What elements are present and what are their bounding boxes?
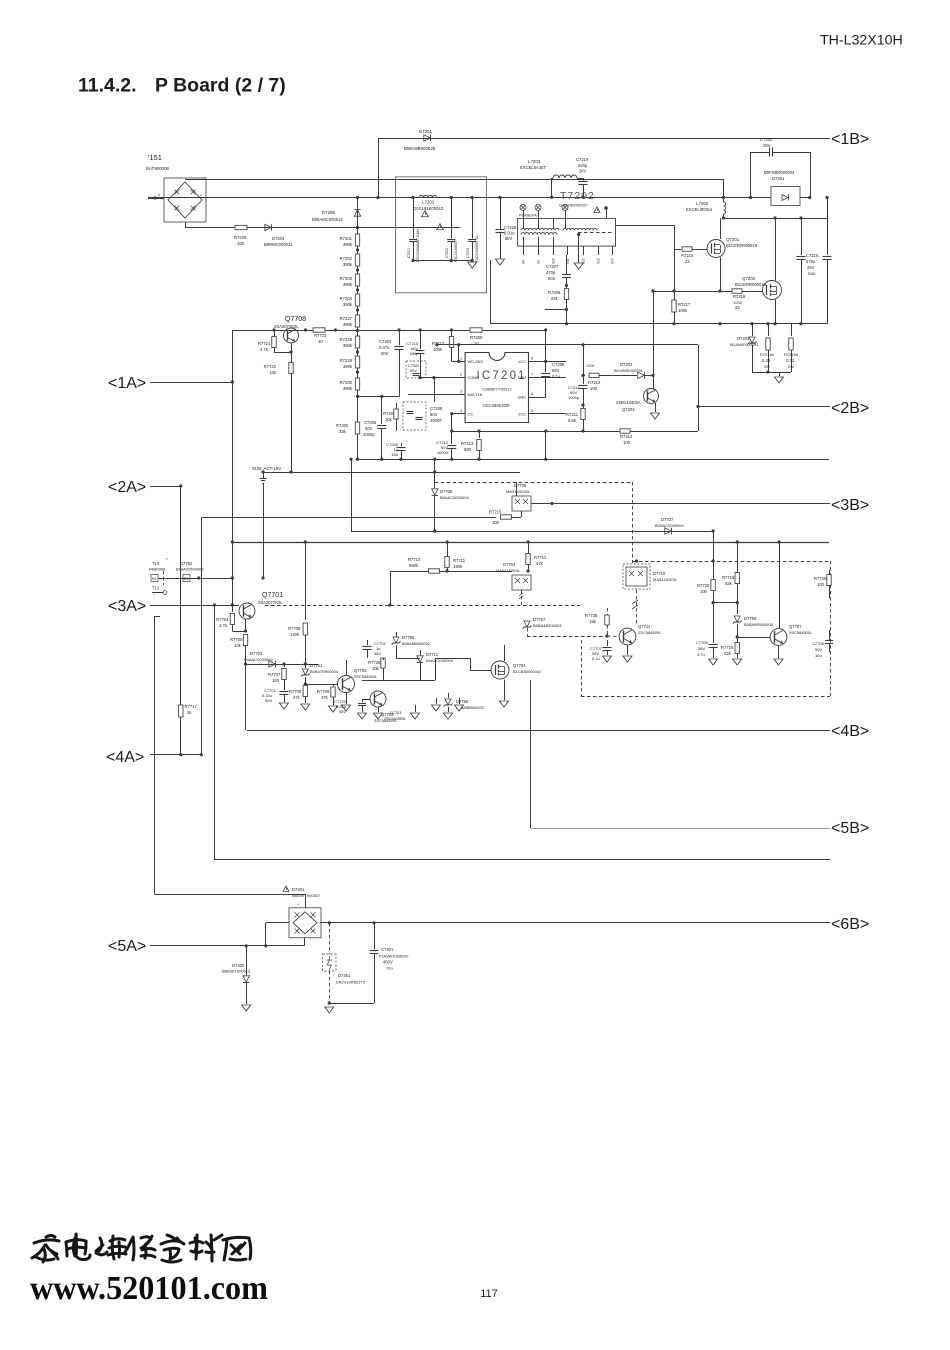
svg-text:COMP: COMP — [468, 376, 480, 380]
svg-text:47k: 47k — [293, 695, 301, 700]
svg-text:2W: 2W — [788, 365, 794, 369]
svg-text:R3: R3 — [152, 577, 156, 581]
svg-text:11.4.2.: 11.4.2. — [78, 75, 137, 97]
zener D7755 — [392, 632, 431, 658]
svg-text:WD-SNS: WD-SNS — [468, 360, 484, 364]
capacitor C7212 — [436, 429, 456, 459]
svg-text:10k: 10k — [234, 643, 242, 648]
resistor R7723 — [313, 328, 337, 344]
node 3A — [108, 598, 239, 615]
ground — [280, 703, 289, 709]
junction — [328, 921, 376, 924]
svg-text:R7711: R7711 — [453, 558, 466, 563]
svg-text:56V: 56V — [374, 651, 381, 656]
svg-text:56V: 56V — [552, 368, 560, 373]
wire — [800, 197, 810, 199]
svg-text:D7710: D7710 — [653, 571, 666, 576]
ground — [775, 372, 784, 383]
capacitor C7520 — [406, 361, 426, 378]
svg-text:D7705: D7705 — [440, 489, 453, 494]
capacitor C7207 — [546, 255, 571, 288]
svg-text:0.33: 0.33 — [762, 358, 771, 363]
svg-text:C7520: C7520 — [408, 364, 419, 368]
svg-text:4: 4 — [158, 193, 160, 197]
svg-text:100: 100 — [817, 582, 825, 587]
resistor R7720 — [697, 580, 715, 595]
svg-text:680: 680 — [464, 447, 472, 452]
svg-text:B0B47R900004: B0B47R900004 — [310, 669, 339, 674]
mosfet Q7201 — [707, 218, 758, 258]
svg-text:390k: 390k — [343, 282, 353, 287]
wire — [752, 370, 791, 373]
bridge rectifier D7401 — [264, 886, 321, 948]
wire — [185, 222, 460, 228]
svg-text:MA3X15200L: MA3X15200L — [506, 489, 531, 494]
resistor R7212 — [583, 364, 637, 391]
svg-text:D7704: D7704 — [503, 562, 516, 567]
svg-text:D7201: D7201 — [419, 129, 432, 134]
zener D7757 — [523, 617, 608, 637]
svg-text:+: + — [297, 903, 299, 907]
svg-text:100: 100 — [590, 386, 598, 391]
svg-text:R7717: R7717 — [185, 704, 198, 709]
node 4B — [247, 723, 870, 740]
svg-text:R7736: R7736 — [585, 613, 598, 618]
svg-text:R7704: R7704 — [216, 617, 229, 622]
svg-text:MA34152E0L: MA34152E0L — [653, 577, 678, 582]
svg-text:390k: 390k — [343, 386, 353, 391]
svg-text:R7202: R7202 — [340, 256, 353, 261]
pin 4 — [450, 409, 473, 417]
svg-text:GND: GND — [518, 396, 527, 400]
wire — [451, 414, 453, 431]
resistor R7704 — [216, 605, 247, 633]
svg-text:56V: 56V — [339, 709, 346, 714]
capacitor C7701 — [262, 688, 289, 703]
wire — [712, 531, 715, 604]
svg-text:5.6k: 5.6k — [568, 418, 577, 423]
svg-text:50V: 50V — [410, 369, 417, 373]
svg-text:D7752: D7752 — [180, 561, 193, 566]
resistor R7268 — [470, 328, 483, 346]
svg-text:R7227: R7227 — [340, 316, 353, 321]
svg-text:C7229: C7229 — [504, 225, 517, 230]
svg-text:UCC28051DR: UCC28051DR — [483, 403, 510, 408]
resistor R7717 — [179, 704, 198, 717]
svg-text:2W: 2W — [764, 365, 770, 369]
pin 6 — [518, 392, 546, 400]
svg-text:<1A>: <1A> — [108, 375, 146, 392]
section heading — [78, 75, 286, 97]
svg-text:<2A>: <2A> — [108, 479, 146, 496]
svg-text:D7251: D7251 — [772, 176, 785, 181]
svg-text:2SC584500L: 2SC584500L — [789, 630, 813, 635]
resistor R7736 — [585, 608, 609, 638]
photocoupler D7709 — [506, 482, 554, 511]
node SUB_ACT-18V — [252, 466, 281, 484]
svg-text:100: 100 — [237, 241, 245, 246]
svg-text:<2B>: <2B> — [831, 400, 869, 417]
resistor R7218 — [760, 322, 775, 372]
svg-text:390k: 390k — [343, 302, 353, 307]
svg-text:50V: 50V — [265, 698, 272, 703]
wire — [155, 894, 306, 908]
svg-text:ZCD: ZCD — [518, 412, 526, 416]
ground — [411, 705, 420, 719]
diode D7201 — [379, 129, 436, 198]
svg-text:R7210: R7210 — [432, 341, 445, 346]
svg-text:390k: 390k — [343, 322, 353, 327]
svg-text:R7721: R7721 — [258, 341, 271, 346]
svg-text:R7722: R7722 — [264, 364, 277, 369]
svg-text:R7706: R7706 — [288, 626, 301, 631]
wire — [435, 343, 698, 346]
capacitor C7702 — [363, 640, 387, 658]
svg-text:R7217: R7217 — [678, 302, 691, 307]
capacitor C7208 — [403, 402, 443, 430]
svg-text:100: 100 — [272, 678, 280, 683]
zener D7751 — [301, 663, 339, 686]
svg-text:10u: 10u — [815, 653, 822, 658]
resistor R7707 — [268, 662, 286, 690]
diode D7204 — [264, 224, 293, 247]
pin 8 — [518, 357, 566, 365]
svg-text:C7206: C7206 — [364, 420, 377, 425]
svg-text:C7706: C7706 — [812, 641, 825, 646]
resistor R7709 — [317, 684, 338, 712]
svg-text:1000#: 1000# — [430, 418, 442, 423]
wire — [773, 218, 776, 325]
svg-text:3: 3 — [460, 390, 462, 394]
svg-text:5: 5 — [531, 409, 533, 413]
svg-text:10u: 10u — [386, 966, 393, 971]
svg-text:<6B>: <6B> — [831, 916, 869, 933]
resistor R7227 — [340, 306, 360, 327]
svg-text:8: 8 — [531, 357, 533, 361]
node 5A — [108, 938, 305, 955]
svg-text:CS: CS — [468, 412, 474, 416]
svg-text:R7710: R7710 — [408, 557, 421, 562]
capacitor C7209 — [386, 442, 405, 459]
transformer T7202 — [518, 190, 616, 246]
svg-text:B0AAC0000084: B0AAC0000084 — [244, 657, 273, 662]
svg-text:F0C2165M097 1u: F0C2165M097 1u — [475, 235, 479, 262]
capacitor C7219 — [576, 157, 589, 199]
op-amp IC7201 box — [465, 353, 528, 423]
svg-text:560k: 560k — [409, 563, 419, 568]
svg-text:S9: S9 — [537, 260, 541, 264]
svg-text:2SC584500L: 2SC584500L — [354, 674, 378, 679]
svg-text:100: 100 — [623, 440, 631, 445]
svg-text:C7215: C7215 — [806, 253, 819, 258]
svg-text:B0BA4B500003: B0BA4B500003 — [533, 623, 562, 628]
svg-text:4.7u: 4.7u — [697, 652, 705, 657]
wire to 2B — [696, 345, 699, 431]
svg-text:50V: 50V — [548, 276, 556, 281]
resistor R7219 — [784, 324, 799, 372]
svg-text:C7219: C7219 — [576, 157, 589, 162]
wire — [263, 470, 520, 473]
svg-text:D7759: D7759 — [744, 616, 757, 621]
wire box left — [155, 616, 161, 894]
svg-text:0.47u: 0.47u — [379, 345, 390, 350]
transistor Q7711 — [607, 624, 662, 662]
svg-text:P Board (2 / 7): P Board (2 / 7) — [155, 75, 286, 97]
svg-text:Q7711: Q7711 — [638, 624, 651, 629]
resistor R7214 — [620, 429, 633, 445]
svg-text:F0C2218M097: F0C2218M097 — [454, 240, 458, 262]
resistor R7228 — [340, 327, 360, 348]
wire — [199, 576, 265, 579]
transistor Q7203 — [616, 375, 660, 419]
svg-text:22k: 22k — [724, 651, 732, 656]
filter box — [396, 177, 487, 293]
svg-text:Q7203: Q7203 — [622, 407, 635, 412]
resistor R7215 — [674, 247, 708, 264]
svg-text:DRV: DRV — [518, 376, 526, 380]
svg-text:R7213: R7213 — [461, 441, 474, 446]
wire bus — [148, 197, 771, 199]
svg-text:C7207: C7207 — [546, 264, 559, 269]
pin 4 — [535, 205, 541, 219]
resistor R7206 — [545, 289, 569, 326]
svg-text:C0B8BYY90012: C0B8BYY90012 — [482, 387, 512, 392]
svg-text:R7705: R7705 — [230, 637, 243, 642]
capacitor C7707 — [590, 640, 612, 662]
pin 7 — [518, 373, 566, 381]
transistor Q7708 — [272, 316, 307, 343]
resistor R7715 — [201, 510, 521, 526]
svg-text:<5A>: <5A> — [108, 938, 146, 955]
svg-text:C7230: C7230 — [760, 137, 773, 142]
capacitor C7201 — [407, 196, 443, 262]
svg-text:2kV: 2kV — [579, 169, 586, 174]
zener D7759 — [733, 603, 774, 639]
svg-text:*: * — [166, 557, 168, 562]
resistor R7235 — [234, 225, 247, 246]
pin 2 — [520, 205, 526, 219]
dashed link — [435, 482, 633, 563]
svg-text:R7206: R7206 — [548, 290, 561, 295]
resistor R7201 — [340, 228, 360, 248]
svg-text:R3: R3 — [184, 577, 188, 581]
svg-text:117: 117 — [480, 1288, 498, 1300]
svg-text:100k: 100k — [433, 347, 443, 352]
svg-text:R7235: R7235 — [234, 235, 247, 240]
wire gate line — [651, 289, 762, 292]
resistor R7210 — [432, 328, 454, 361]
svg-text:G0C181K00043: G0C181K00043 — [413, 206, 444, 211]
svg-text:<3A>: <3A> — [108, 598, 146, 615]
svg-text:R7201: R7201 — [340, 236, 353, 241]
pin 6 — [562, 205, 568, 219]
capacitor C7204 — [379, 328, 404, 396]
svg-text:D7401: D7401 — [292, 887, 305, 892]
node 3B — [534, 497, 869, 514]
svg-text:S8: S8 — [522, 260, 526, 264]
junction — [376, 196, 811, 199]
svg-text:EXCEL5A35T: EXCEL5A35T — [520, 165, 547, 170]
svg-text:R7230: R7230 — [340, 380, 353, 385]
resistor R7711 — [445, 557, 466, 570]
svg-text:<3B>: <3B> — [831, 497, 869, 514]
svg-text:Q7707: Q7707 — [789, 624, 802, 629]
wire — [356, 390, 399, 398]
svg-text:10k: 10k — [269, 370, 277, 375]
svg-text:R7268: R7268 — [470, 335, 483, 340]
svg-text:Q7201: Q7201 — [726, 237, 740, 242]
resistor R7706 — [288, 542, 308, 664]
wire — [388, 571, 391, 607]
svg-text:Q7708: Q7708 — [285, 316, 306, 323]
svg-text:L7201: L7201 — [422, 200, 435, 205]
svg-text:2SC584500L: 2SC584500L — [638, 630, 662, 635]
capacitor C7706 — [812, 630, 833, 658]
svg-text:D7205: D7205 — [322, 210, 335, 215]
resistor R7203 — [340, 266, 360, 287]
capacitor C7229 — [496, 196, 518, 265]
wire collector — [245, 664, 247, 730]
page header model number — [820, 33, 903, 49]
svg-text:B1CERR000018: B1CERR000018 — [726, 243, 758, 248]
pin 3 — [408, 390, 483, 398]
svg-text:T7202: T7202 — [560, 190, 595, 202]
node 2A — [108, 479, 181, 496]
svg-text:R7204: R7204 — [340, 296, 353, 301]
svg-text:50V: 50V — [381, 351, 389, 356]
svg-text:R7203: R7203 — [340, 276, 353, 281]
svg-text:D7204: D7204 — [272, 236, 285, 241]
svg-text:19k: 19k — [589, 619, 597, 624]
svg-text:C7295: C7295 — [552, 362, 565, 367]
resistor R7211 — [566, 403, 585, 431]
svg-text:190k: 190k — [453, 564, 463, 569]
resistor R7213 — [461, 429, 481, 459]
optic arrow — [632, 590, 638, 625]
svg-text:B6E8KT000013: B6E8KT000013 — [222, 969, 251, 974]
svg-text:D7756: D7756 — [456, 699, 469, 704]
transformer pins bottom — [522, 246, 615, 264]
svg-text:Q7701: Q7701 — [262, 592, 283, 599]
svg-text:R7211: R7211 — [566, 412, 579, 417]
bridge rectifier '151 — [146, 153, 206, 222]
svg-text:D7751: D7751 — [310, 663, 323, 668]
svg-text:T13: T13 — [152, 586, 160, 591]
transistor Q7707 — [737, 542, 813, 665]
resistor R7204 — [340, 286, 360, 307]
mosfet Q7704 — [470, 645, 542, 707]
svg-text:50V: 50V — [815, 647, 822, 652]
resistor R7710 — [390, 557, 512, 573]
svg-text:'151: '151 — [148, 153, 162, 162]
svg-text:1000p: 1000p — [568, 395, 580, 400]
ground — [301, 704, 310, 710]
svg-text:<1B>: <1B> — [831, 131, 869, 148]
transistor Q7701 — [213, 592, 283, 619]
svg-text:1000#: 1000# — [437, 450, 449, 455]
wire bus x232 — [231, 330, 234, 607]
svg-text:R7214: R7214 — [620, 434, 633, 439]
svg-text:390k: 390k — [343, 242, 353, 247]
svg-text:ER2V10R621T2: ER2V10R621T2 — [336, 980, 366, 985]
svg-text:B0AAC0000004: B0AAC0000004 — [440, 495, 469, 500]
svg-text:L7202: L7202 — [696, 201, 709, 206]
svg-text:R7719: R7719 — [721, 645, 734, 650]
svg-text:B0AAC0000004: B0AAC0000004 — [655, 523, 684, 528]
svg-text:<4A>: <4A> — [106, 749, 144, 766]
svg-text:TH-L32X10H: TH-L32X10H — [820, 33, 903, 49]
zener D7756 — [444, 693, 485, 719]
wire — [362, 658, 436, 681]
svg-text:B08AMC000012: B08AMC000012 — [312, 217, 343, 222]
svg-text:0.1u: 0.1u — [552, 374, 561, 379]
svg-text:R680008: R680008 — [149, 567, 166, 572]
resistor R7719 — [721, 637, 742, 665]
resistor R7708 — [289, 686, 308, 704]
resistor R7202 — [340, 246, 360, 267]
ac terminal dot — [148, 193, 202, 200]
svg-text:5kV: 5kV — [505, 236, 512, 241]
capacitor C7401 — [329, 923, 409, 1004]
svg-text:C7705: C7705 — [696, 640, 709, 645]
page number — [480, 1288, 498, 1300]
svg-text:22: 22 — [735, 305, 740, 310]
transistor Q7793 label — [384, 711, 406, 721]
wire — [179, 484, 182, 756]
svg-text:10: 10 — [474, 341, 479, 346]
svg-text:D7703: D7703 — [250, 651, 263, 656]
svg-text:50V: 50V — [430, 412, 438, 417]
wire — [674, 322, 827, 325]
svg-text:R7215: R7215 — [681, 253, 694, 258]
resistor R7209 — [383, 403, 398, 431]
wire — [411, 259, 473, 262]
resistor R7722 — [264, 343, 294, 472]
svg-text:D7711: D7711 — [426, 652, 439, 657]
diode D7251 — [764, 170, 811, 206]
svg-text:MULT1N: MULT1N — [468, 393, 483, 397]
wire secondary return — [490, 260, 674, 324]
resistor R7718 — [722, 573, 739, 587]
node 2B — [698, 400, 869, 417]
resistor R7229 — [340, 348, 360, 369]
svg-text:D7405: D7405 — [232, 963, 245, 968]
capacitor C7705 — [696, 603, 718, 665]
svg-text:D7202: D7202 — [620, 362, 633, 367]
svg-text:10k: 10k — [385, 417, 393, 422]
ground — [455, 698, 464, 711]
photocoupler D7704 — [496, 562, 531, 605]
svg-text:EXCEL0R354: EXCEL0R354 — [686, 207, 713, 212]
capacitor C7703 — [334, 699, 366, 719]
svg-text:D7707: D7707 — [661, 517, 674, 522]
wire vcc — [544, 328, 547, 363]
resistor R7205 — [336, 414, 360, 434]
svg-text:C7204: C7204 — [379, 339, 392, 344]
svg-text:390k: 390k — [343, 343, 353, 348]
svg-text:D7709: D7709 — [514, 483, 527, 488]
svg-text:450V: 450V — [383, 960, 393, 965]
svg-text:2SB143403A: 2SB143403A — [616, 400, 641, 405]
svg-text:47k: 47k — [321, 695, 329, 700]
capacitor C7230 — [751, 137, 811, 198]
svg-text:2SA2077K0L: 2SA2077K0L — [274, 324, 299, 329]
svg-text:120k: 120k — [290, 632, 300, 637]
svg-text:MA34152E0L: MA34152E0L — [496, 568, 521, 573]
wire — [530, 680, 532, 828]
svg-text:1000p: 1000p — [363, 432, 375, 437]
svg-text:R7735: R7735 — [368, 660, 381, 665]
